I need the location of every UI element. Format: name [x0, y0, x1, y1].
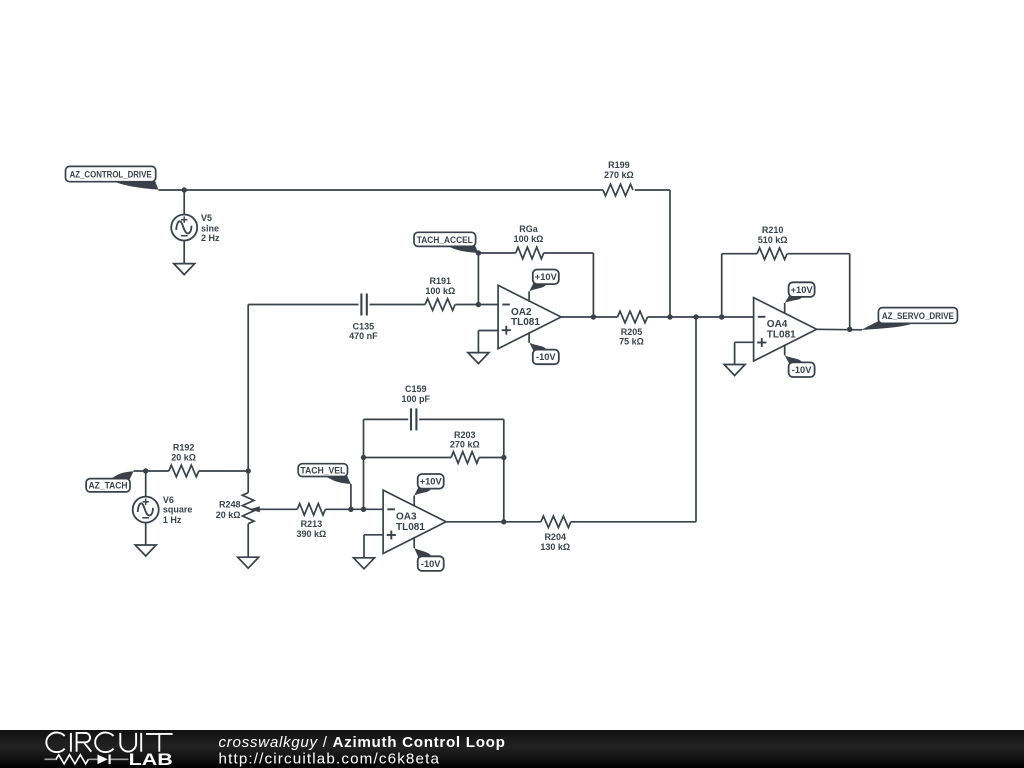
ground below V6 — [135, 545, 156, 556]
op-amp OA4 — [754, 298, 817, 361]
wire TACH_ACCEL drop — [477, 253, 479, 305]
power flag +10V OA4 — [785, 282, 815, 303]
resistor R213 — [297, 504, 327, 539]
node R248 top junction — [246, 468, 251, 473]
op-amp OA2 — [498, 285, 561, 348]
power flag +10V OA2 — [529, 270, 558, 292]
svg-text:75 kΩ: 75 kΩ — [619, 337, 644, 347]
wire OA2 + input to ground — [478, 331, 498, 353]
svg-text:-10V: -10V — [792, 365, 812, 375]
svg-text:TL081: TL081 — [396, 522, 425, 533]
svg-text:20 kΩ: 20 kΩ — [216, 510, 241, 520]
svg-text:square: square — [163, 505, 193, 515]
node RGa output junction — [591, 314, 596, 319]
ground below R248 — [238, 557, 259, 568]
node R203 right junction — [501, 455, 506, 460]
wire TACH_VEL drop — [350, 484, 352, 509]
svg-text:2 Hz: 2 Hz — [201, 233, 220, 243]
svg-text:R210: R210 — [762, 225, 784, 235]
resistor R191 — [425, 276, 455, 310]
node R199 junction — [667, 314, 672, 319]
svg-text:AZ_CONTROL_DRIVE: AZ_CONTROL_DRIVE — [70, 169, 152, 179]
supply stub OA2 V+ — [528, 291, 530, 302]
svg-text:TL081: TL081 — [511, 317, 540, 328]
net flag AZ_TACH — [86, 471, 134, 492]
node R203 left junction — [361, 455, 366, 460]
wire OA2 output row — [561, 316, 754, 318]
node R204 junction — [693, 314, 698, 319]
node C159 left junction on input — [361, 507, 366, 512]
svg-text:+10V: +10V — [420, 477, 443, 487]
svg-text:-10V: -10V — [421, 559, 441, 569]
footer url — [219, 751, 441, 768]
supply stub OA3 V+ — [413, 496, 415, 507]
svg-text:C159: C159 — [405, 384, 427, 394]
supply stub OA2 V- — [528, 332, 530, 343]
svg-text:OA2: OA2 — [511, 307, 532, 318]
power flag -10V OA2 — [529, 343, 558, 364]
node TACH_ACCEL junction — [476, 250, 481, 307]
svg-text:AZ_TACH: AZ_TACH — [89, 481, 128, 491]
wire R213 to OA3 — [325, 508, 383, 510]
net flag AZ_CONTROL_DRIVE — [66, 166, 159, 189]
resistor R199 — [603, 160, 634, 196]
footer bar — [0, 730, 1024, 768]
svg-text:+10V: +10V — [535, 272, 558, 282]
op-amp OA3 — [383, 490, 446, 553]
supply stub OA3 V- — [413, 537, 415, 548]
voltage source V6 — [133, 471, 193, 545]
svg-text:R204: R204 — [544, 532, 566, 542]
node TACH_VEL junction — [348, 507, 353, 512]
ground OA3 noninverting — [354, 558, 375, 569]
footer title — [219, 734, 506, 751]
node V6 junction — [143, 468, 148, 473]
svg-text:130 kΩ: 130 kΩ — [540, 542, 570, 552]
svg-text:-10V: -10V — [536, 352, 556, 362]
wire R210 feedback loop — [722, 254, 850, 330]
svg-text:OA4: OA4 — [767, 319, 788, 330]
svg-text:TL081: TL081 — [767, 330, 796, 341]
resistor R205 — [618, 311, 648, 347]
node junction V5/AZ_CONTROL_DRIVE — [182, 187, 187, 192]
wire AZ_CONTROL_DRIVE row — [158, 190, 670, 317]
wire OA3 + input to ground — [364, 535, 383, 558]
svg-text:270 kΩ: 270 kΩ — [450, 440, 480, 450]
wire RGa feedback — [478, 253, 593, 317]
resistor R203 — [450, 430, 480, 463]
svg-text:470 nF: 470 nF — [349, 331, 378, 341]
svg-text:V6: V6 — [163, 495, 174, 505]
capacitor C135 — [349, 294, 378, 342]
svg-text:100 kΩ: 100 kΩ — [425, 286, 455, 296]
ground OA2 noninverting — [468, 353, 489, 364]
svg-text:sine: sine — [201, 223, 219, 233]
wire C159 feedback loop — [364, 419, 504, 521]
potentiometer R248 — [216, 471, 298, 557]
wire AZ_TACH row — [134, 470, 249, 472]
svg-text:LAB: LAB — [129, 751, 173, 768]
wire R203 feedback row — [364, 457, 504, 459]
power flag -10V OA3 — [414, 548, 444, 571]
svg-text:20 kΩ: 20 kΩ — [171, 452, 196, 462]
svg-text:R192: R192 — [173, 442, 195, 452]
svg-text:R191: R191 — [430, 276, 452, 286]
svg-text:R248: R248 — [219, 500, 241, 510]
svg-text:510 kΩ: 510 kΩ — [758, 235, 788, 245]
wire OA4 output — [816, 328, 862, 331]
wire OA3 output row — [446, 317, 696, 522]
svg-text:crosswalkguy / Azimuth Control: crosswalkguy / Azimuth Control Loop — [219, 734, 506, 751]
svg-text:OA3: OA3 — [396, 512, 417, 523]
svg-text:V5: V5 — [201, 213, 212, 223]
svg-text:R203: R203 — [454, 430, 476, 440]
node OA4 output junction — [847, 327, 852, 332]
resistor R204 — [540, 516, 571, 552]
svg-text:TACH_ACCEL: TACH_ACCEL — [417, 235, 473, 245]
svg-text:270 kΩ: 270 kΩ — [604, 170, 634, 180]
supply stub OA4 V- — [784, 345, 786, 356]
svg-text:100 pF: 100 pF — [402, 394, 431, 404]
svg-text:+10V: +10V — [791, 285, 814, 295]
svg-text:1 Hz: 1 Hz — [163, 515, 182, 525]
svg-text:R213: R213 — [301, 519, 323, 529]
supply stub OA4 V+ — [784, 303, 786, 314]
node OA3 output junction — [501, 519, 506, 524]
logo LAB — [129, 751, 173, 768]
power flag -10V OA4 — [785, 355, 815, 377]
logo resistor-diode glyph — [45, 755, 129, 765]
ground below V5 — [174, 264, 195, 275]
resistor R192 — [169, 442, 199, 476]
wire C135/R191 input row — [248, 305, 498, 472]
svg-text:TACH_VEL: TACH_VEL — [300, 466, 345, 476]
net flag AZ_SERVO_DRIVE — [861, 308, 957, 330]
svg-text:C135: C135 — [353, 321, 375, 331]
power flag +10V OA3 — [414, 474, 444, 496]
svg-text:AZ_SERVO_DRIVE: AZ_SERVO_DRIVE — [882, 311, 954, 321]
resistor R210 — [757, 225, 787, 260]
net flag TACH_ACCEL — [414, 232, 478, 253]
svg-text:RGa: RGa — [519, 224, 539, 234]
ground OA4 noninverting — [724, 365, 745, 376]
node R210 junction — [719, 314, 724, 319]
wire OA4 + input to ground — [735, 342, 754, 364]
svg-text:http://circuitlab.com/c6k8eta: http://circuitlab.com/c6k8eta — [219, 751, 441, 768]
logo CIRCUIT — [46, 732, 172, 752]
net flag TACH_VEL — [298, 464, 351, 484]
resistor RGa — [514, 224, 544, 259]
svg-text:390 kΩ: 390 kΩ — [297, 529, 327, 539]
voltage source V5 — [171, 190, 220, 264]
capacitor C159 — [402, 384, 431, 431]
svg-text:R199: R199 — [608, 160, 630, 170]
svg-text:R205: R205 — [621, 327, 643, 337]
svg-text:100 kΩ: 100 kΩ — [514, 234, 544, 244]
